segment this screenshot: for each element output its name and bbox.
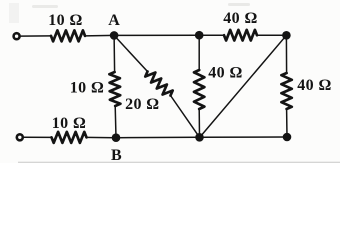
wire node N1 to top 40ohm resistor bbox=[199, 34, 224, 36]
node N4 junction dot bbox=[283, 133, 292, 142]
wire bottom of middle 40ohm resistor to node N3 bbox=[198, 109, 200, 137]
node N1 junction dot bbox=[195, 31, 204, 40]
resistor 10ohm top-left bbox=[51, 30, 85, 41]
svg-text:10 Ω: 10 Ω bbox=[52, 115, 86, 132]
node B junction dot bbox=[112, 133, 121, 142]
scan artifact bottom edge line bbox=[18, 161, 340, 163]
svg-text:40 Ω: 40 Ω bbox=[208, 65, 242, 82]
wire bottom of right 40ohm resistor to node N4 bbox=[286, 109, 288, 137]
svg-text:40 Ω: 40 Ω bbox=[223, 10, 257, 27]
wire resistor to node B bbox=[87, 136, 117, 138]
wire resistor to node A bbox=[85, 34, 114, 37]
wire diagonal node N2 to node N3 bbox=[200, 35, 287, 137]
node A junction dot bbox=[110, 31, 119, 40]
resistor 40ohm vertical middle bbox=[194, 70, 204, 109]
svg-text:A: A bbox=[108, 12, 120, 29]
wire node N1 to top of middle 40ohm resistor bbox=[198, 35, 200, 70]
terminal bottom-left bbox=[17, 134, 23, 140]
resistor 40ohm vertical right bbox=[281, 73, 291, 109]
svg-text:10 Ω: 10 Ω bbox=[70, 80, 104, 97]
svg-text:40 Ω: 40 Ω bbox=[297, 77, 331, 94]
node N2 junction dot bbox=[282, 31, 291, 40]
resistor 40ohm top bbox=[224, 30, 257, 41]
scan artifact top ghost mark 1 bbox=[32, 5, 58, 8]
resistor 20ohm diagonal bbox=[145, 72, 172, 96]
scan artifact top-left smudge bbox=[9, 3, 19, 23]
wire node A to node N1 bbox=[114, 34, 199, 36]
wire bottom of 10ohm vertical resistor to node B bbox=[114, 106, 117, 138]
wire node B to node N3 bbox=[116, 136, 200, 138]
resistor 10ohm vertical A-B bbox=[109, 72, 120, 106]
scan artifact top ghost mark 2 bbox=[228, 3, 250, 6]
wire top-left terminal to resistor bbox=[21, 35, 51, 37]
wire node A to top of 10ohm vertical resistor bbox=[113, 35, 116, 72]
wire node A to 20ohm diagonal resistor bbox=[114, 35, 147, 71]
wire bottom-left terminal to resistor bbox=[23, 136, 51, 138]
node N3 junction dot bbox=[195, 133, 204, 142]
svg-text:B: B bbox=[111, 147, 122, 163]
terminal top-left bbox=[14, 33, 20, 39]
resistor 10ohm bottom-left bbox=[52, 132, 87, 143]
wire node N3 to node N4 bbox=[200, 136, 288, 138]
wire node N2 to top of right 40ohm resistor bbox=[285, 35, 287, 73]
wire top 40ohm resistor to node N2 bbox=[257, 34, 286, 36]
wire 20ohm diagonal resistor to node N3 bbox=[171, 96, 200, 138]
svg-text:20 Ω: 20 Ω bbox=[125, 96, 159, 113]
svg-text:10 Ω: 10 Ω bbox=[48, 12, 82, 29]
